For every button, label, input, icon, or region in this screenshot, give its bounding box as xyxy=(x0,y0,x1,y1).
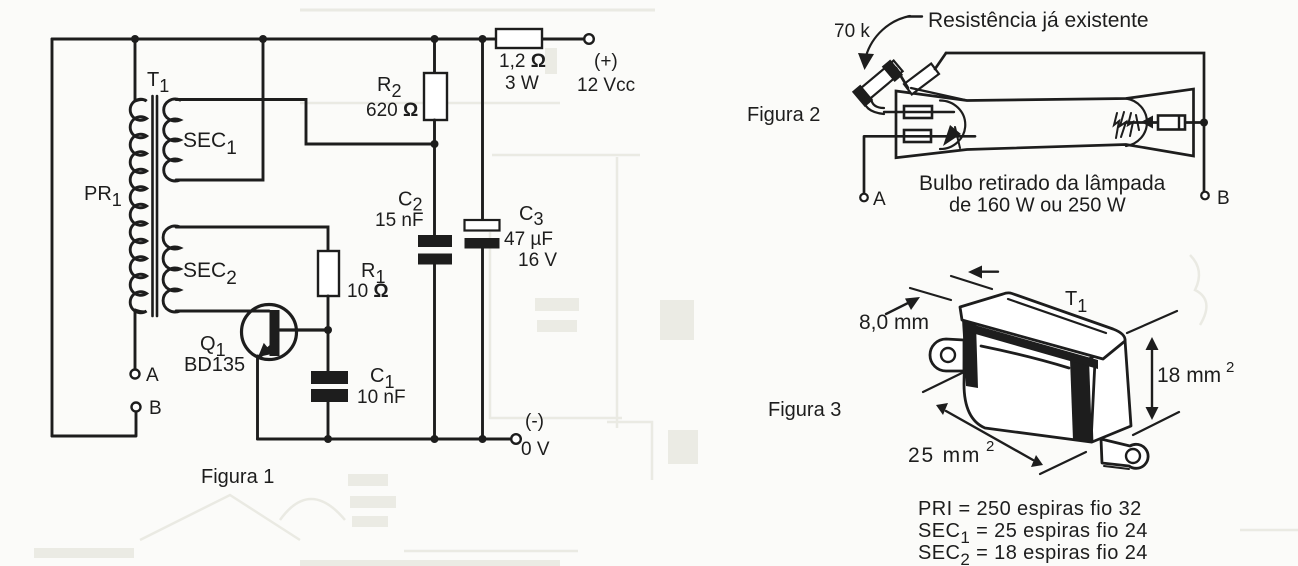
curved lead below resistor xyxy=(863,96,884,114)
support rect upper xyxy=(904,106,932,118)
junction dot fig2 xyxy=(1200,119,1208,127)
wire through upper support xyxy=(884,111,954,113)
dim ext line 8mm lower xyxy=(910,288,951,300)
wire top loop to B xyxy=(946,53,1204,191)
wire from arm to top loop xyxy=(896,53,946,88)
wire R1 bottom xyxy=(327,296,330,330)
coil front face xyxy=(964,325,1095,442)
svg-text:18 mm: 18 mm xyxy=(1157,364,1221,387)
svg-text:15 nF: 15 nF xyxy=(375,210,424,231)
svg-text:Resistência já existente: Resistência já existente xyxy=(928,9,1149,32)
transistor Q1 xyxy=(242,305,297,360)
core right side face xyxy=(1089,340,1131,442)
dim ext line 18mm lower xyxy=(1133,412,1179,435)
svg-text:2: 2 xyxy=(986,438,994,455)
wire C2 bottom lead xyxy=(433,265,436,440)
wire SEC1 bottom up to top rail xyxy=(176,39,263,180)
wire collector xyxy=(280,328,328,331)
wire SEC2 bottom to base xyxy=(176,310,269,313)
wire primary bottom lead to A xyxy=(134,310,137,369)
svg-text:12 Vcc: 12 Vcc xyxy=(577,75,635,96)
resistor R1 xyxy=(318,251,339,296)
svg-text:Figura 1: Figura 1 xyxy=(201,466,274,488)
svg-text:Figura 2: Figura 2 xyxy=(747,104,820,126)
wire bottom rail xyxy=(258,438,512,441)
wire C3 bottom lead xyxy=(481,249,484,440)
svg-text:2: 2 xyxy=(1226,359,1234,376)
svg-text:8,0 mm: 8,0 mm xyxy=(859,311,929,334)
terminal (-) xyxy=(511,434,521,444)
bulb envelope outline xyxy=(896,89,1194,158)
svg-text:(-): (-) xyxy=(525,411,544,432)
resistor 70k diagonal arm xyxy=(852,58,905,107)
terminal B fig2 xyxy=(1201,192,1209,200)
wire through lower support to A xyxy=(864,136,975,193)
diode arrow left xyxy=(943,125,961,146)
svg-text:47 µF: 47 µF xyxy=(504,229,553,250)
transformer SEC1 coil xyxy=(164,99,180,181)
wire through right support xyxy=(1126,121,1201,124)
top end-bell cap xyxy=(960,293,1125,359)
svg-text:Figura 3: Figura 3 xyxy=(768,399,841,421)
svg-text:10 nF: 10 nF xyxy=(357,387,406,408)
bobbin edge line xyxy=(981,346,1069,368)
svg-text:(+): (+) xyxy=(594,51,618,72)
wire SEC1 top to R2 bottom xyxy=(176,100,435,145)
wire left rail xyxy=(51,39,54,436)
bulb inner right end dome arc xyxy=(1126,99,1147,147)
support rect right xyxy=(1158,116,1185,130)
wire emitter xyxy=(256,356,259,439)
terminal A xyxy=(131,370,140,379)
capacitor C2 xyxy=(418,235,452,265)
diode arrow right xyxy=(1141,116,1153,129)
dim ext line 8mm upper xyxy=(951,276,992,289)
transformer PR1 primary coil xyxy=(130,99,146,313)
wire R2 top lead xyxy=(433,39,436,73)
resistor 1,2 ohm xyxy=(496,29,542,48)
dim arrow 18mm double vertical xyxy=(1151,346,1153,411)
support rect lower xyxy=(904,130,931,142)
wire C1 top lead xyxy=(327,330,330,371)
svg-text:B: B xyxy=(1217,188,1230,209)
svg-text:620 Ω: 620 Ω xyxy=(366,100,418,121)
wire top rail xyxy=(52,38,584,41)
junction dots xyxy=(131,35,487,443)
capacitor C1 xyxy=(311,371,348,402)
support arm diagonal white xyxy=(904,64,939,95)
svg-text:70 k: 70 k xyxy=(834,21,870,42)
resistor R2 xyxy=(424,73,447,120)
dim arrow 25mm double xyxy=(946,411,1033,460)
svg-text:10 Ω: 10 Ω xyxy=(347,281,389,302)
labels figure 1 xyxy=(84,51,635,488)
wire C3 top lead xyxy=(481,39,484,220)
terminal A fig2 xyxy=(860,194,868,202)
right mounting lug xyxy=(1101,439,1148,468)
dim ext line 25mm upper xyxy=(923,372,964,392)
bulb inner left end cap arc xyxy=(940,101,965,150)
svg-text:16 V: 16 V xyxy=(518,250,557,271)
svg-text:A: A xyxy=(873,189,886,210)
right black lamination band xyxy=(1070,359,1092,442)
transformer SEC2 coil xyxy=(163,226,180,312)
transformer core xyxy=(153,96,158,316)
cap ridge line xyxy=(1008,299,1106,333)
dim ext line 18mm upper xyxy=(1127,311,1177,333)
svg-text:PRI = 250 espiras fio 32: PRI = 250 espiras fio 32 xyxy=(918,498,1142,520)
svg-text:0 V: 0 V xyxy=(521,439,550,460)
svg-text:BD135: BD135 xyxy=(184,354,245,376)
capacitor C3 xyxy=(465,220,500,231)
dim arrow 8mm lower xyxy=(886,303,908,314)
leader line to resistencia xyxy=(908,15,922,17)
wire bottom left to B xyxy=(52,412,136,436)
svg-text:3 W: 3 W xyxy=(505,73,539,94)
wire R2 bottom lead xyxy=(433,120,436,235)
left mounting lug xyxy=(930,339,964,371)
filament squiggle right xyxy=(1114,112,1133,138)
wire primary top lead xyxy=(134,39,137,101)
svg-text:B: B xyxy=(149,398,162,419)
wire C1 bottom lead xyxy=(327,402,330,439)
svg-text:25 mm: 25 mm xyxy=(908,444,981,467)
dim ext line 25mm lower xyxy=(1040,452,1086,474)
terminal B xyxy=(132,403,141,412)
dim arrow 8mm top xyxy=(977,271,998,273)
curved arrow from label xyxy=(866,16,910,56)
svg-text:Bulbo retirado da lâmpada: Bulbo retirado da lâmpada xyxy=(919,172,1166,195)
svg-text:SEC2 = 18 espiras fio 24: SEC2 = 18 espiras fio 24 xyxy=(918,542,1148,566)
svg-text:1,2 Ω: 1,2 Ω xyxy=(499,51,546,72)
svg-text:A: A xyxy=(146,365,159,386)
seal inner line xyxy=(911,88,965,100)
top black shadow stripe xyxy=(964,322,1098,369)
terminal (+) xyxy=(584,34,594,44)
wire SEC2 top to R1 xyxy=(176,227,328,251)
left black lamination band xyxy=(962,319,978,388)
svg-text:de 160 W ou 250 W: de 160 W ou 250 W xyxy=(949,195,1126,217)
